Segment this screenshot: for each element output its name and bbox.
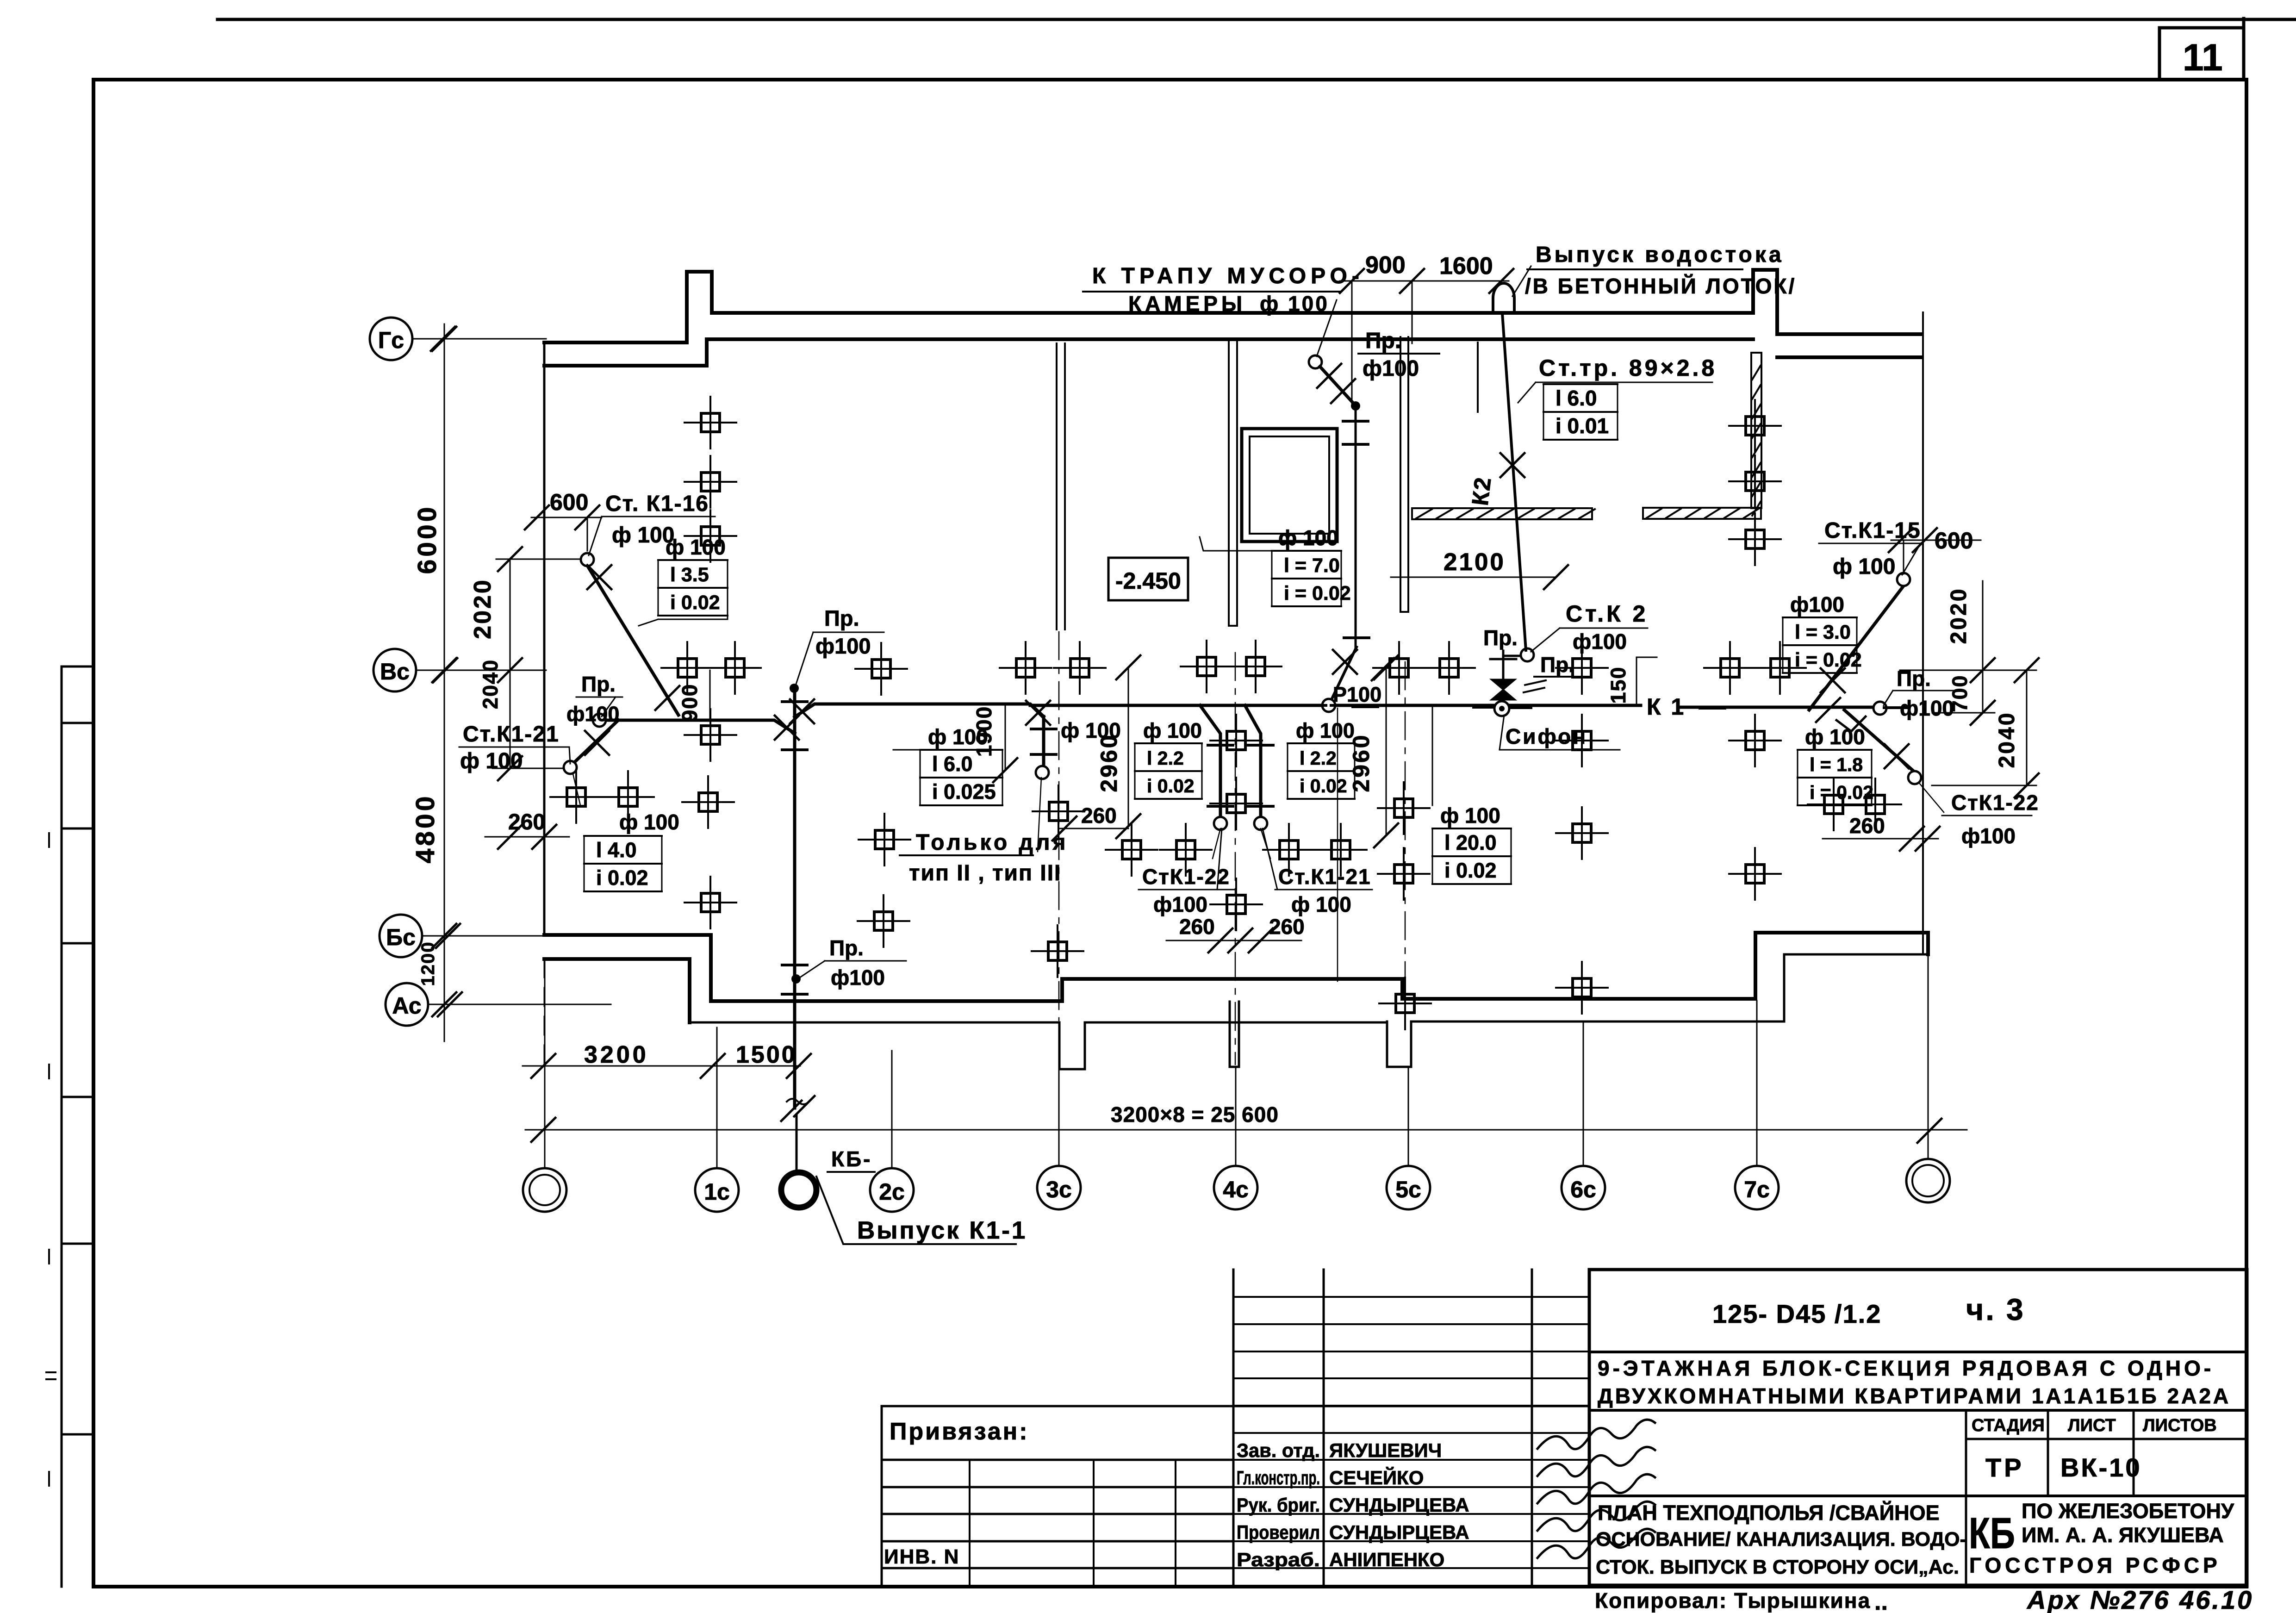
right end double circle bbox=[1906, 1159, 1950, 1202]
pipe to floor drain junction bbox=[1503, 655, 1524, 657]
shaft room double rectangle bbox=[1242, 429, 1337, 542]
axis Ас line bbox=[428, 1004, 611, 1005]
axis circle 2с bbox=[870, 1168, 914, 1212]
leader Выпуск водостока bbox=[1512, 266, 1531, 296]
svg-text:Рук. бриг.: Рук. бриг. bbox=[1237, 1494, 1320, 1516]
svg-text:Пр.: Пр. bbox=[1365, 329, 1401, 353]
svg-text:ЛИСТ: ЛИСТ bbox=[2068, 1416, 2116, 1435]
svg-text:3с: 3с bbox=[1046, 1177, 1072, 1202]
bottom riser continuation and break bbox=[787, 1099, 809, 1104]
axis Гс circle bbox=[370, 318, 412, 360]
pipe K1 left segment bbox=[599, 720, 795, 733]
top wall left segment bbox=[544, 341, 707, 366]
interior wall at axis 3с bbox=[1057, 343, 1065, 629]
svg-text:900: 900 bbox=[1365, 252, 1406, 279]
stack Ст.К 2 pipe bbox=[1502, 313, 1526, 650]
bottom wall outer middle bbox=[711, 933, 1928, 1001]
cleanout at K1 right end bbox=[1873, 702, 1886, 715]
svg-text:150: 150 bbox=[1606, 666, 1630, 704]
svg-text:ИНВ. N: ИНВ. N bbox=[884, 1545, 959, 1568]
pipe diagonal Ст.К1-21 left bbox=[574, 720, 618, 763]
svg-text:СтК1-22: СтК1-22 bbox=[1951, 791, 2039, 815]
svg-text:i = 0.02: i = 0.02 bbox=[1810, 782, 1873, 803]
svg-text:ф 100: ф 100 bbox=[460, 749, 523, 773]
title stamp columns bbox=[1966, 1410, 2247, 1585]
svg-text:2020: 2020 bbox=[469, 578, 496, 639]
leader к трапу bbox=[1317, 300, 1337, 356]
svg-text:К 1: К 1 bbox=[1647, 694, 1686, 720]
pipe K1 middle segment bbox=[1030, 705, 1880, 707]
svg-text:ф 100: ф 100 bbox=[619, 810, 679, 834]
svg-text:Только для: Только для bbox=[916, 830, 1068, 855]
svg-text:600: 600 bbox=[550, 489, 588, 515]
interior wall left of shaft bbox=[1229, 341, 1237, 626]
svg-text:КБ: КБ bbox=[1969, 1509, 2015, 1558]
svg-text:260: 260 bbox=[1849, 814, 1885, 838]
level mark -2.450 bbox=[1108, 558, 1188, 600]
svg-text:ОСНОВАНИЕ/ КАНАЛИЗАЦИЯ. ВОДО-: ОСНОВАНИЕ/ КАНАЛИЗАЦИЯ. ВОДО- bbox=[1596, 1528, 1966, 1551]
svg-text:2960: 2960 bbox=[1348, 733, 1374, 792]
privyazan box bbox=[882, 1406, 1589, 1585]
svg-text:ф100: ф100 bbox=[1961, 824, 2016, 848]
svg-text:4с: 4с bbox=[1223, 1177, 1249, 1202]
svg-text:1200: 1200 bbox=[418, 941, 438, 986]
title block row lines bbox=[1589, 1352, 2247, 1496]
garbage chute drain branch bbox=[1309, 355, 1322, 368]
svg-text:КБ-: КБ- bbox=[831, 1147, 872, 1171]
svg-text:Арх №276 46.10: Арх №276 46.10 bbox=[2026, 1585, 2253, 1613]
sheet top edge line bbox=[218, 18, 2296, 21]
svg-text:l 2.2: l 2.2 bbox=[1147, 747, 1184, 769]
svg-text:Выпуск водостока: Выпуск водостока bbox=[1536, 243, 1784, 267]
svg-text:ВК-10: ВК-10 bbox=[2060, 1453, 2142, 1482]
svg-text:Пр.: Пр. bbox=[1483, 626, 1518, 650]
svg-text:ф 100: ф 100 bbox=[928, 725, 988, 749]
top wall chute bump bbox=[687, 272, 712, 343]
svg-text:Ст.К1-15: Ст.К1-15 bbox=[1824, 518, 1921, 543]
svg-text:i 0.02: i 0.02 bbox=[596, 866, 648, 890]
svg-text:К2: К2 bbox=[1467, 475, 1496, 507]
svg-text:ПО ЖЕЛЕЗОБЕТОНУ: ПО ЖЕЛЕЗОБЕТОНУ bbox=[2022, 1499, 2234, 1523]
svg-text:ф 100: ф 100 bbox=[1296, 719, 1355, 742]
pipe K1 right of riser bbox=[795, 704, 1044, 717]
signatures cursive bbox=[1537, 1420, 1655, 1449]
stack riser Выпуск К1-1 bbox=[793, 688, 796, 1108]
svg-text:ф 100: ф 100 bbox=[1260, 292, 1329, 316]
svg-text:ЯКУШЕВИЧ: ЯКУШЕВИЧ bbox=[1329, 1439, 1442, 1461]
axis Бс circle bbox=[380, 915, 422, 957]
svg-text:i 0.02: i 0.02 bbox=[1300, 775, 1347, 797]
svg-text:l 6.0: l 6.0 bbox=[1556, 386, 1597, 410]
svg-text:Разраб.: Разраб. bbox=[1237, 1549, 1320, 1570]
svg-text:ф 100: ф 100 bbox=[1143, 719, 1202, 742]
axis circle 5с bbox=[1387, 1166, 1430, 1209]
svg-text:i = 0.02: i = 0.02 bbox=[1795, 649, 1862, 671]
svg-text:ф100: ф100 bbox=[1573, 629, 1627, 654]
svg-text:5с: 5с bbox=[1395, 1177, 1421, 1202]
svg-text:260: 260 bbox=[508, 810, 545, 835]
dim 900 left bbox=[709, 670, 711, 720]
dim line 2020 left bbox=[496, 559, 586, 670]
hatched wall strip left bbox=[1412, 508, 1592, 519]
svg-text:l = 7.0: l = 7.0 bbox=[1284, 554, 1340, 577]
bottom sheet line bbox=[93, 1585, 2247, 1588]
pipe diagonal Ст.К1-15 right bbox=[1809, 586, 1904, 710]
table l6.0 i0.01 bbox=[1543, 383, 1618, 385]
svg-text:СТОК. ВЫПУСК В СТОРОНУ ОСИ„Ас.: СТОК. ВЫПУСК В СТОРОНУ ОСИ„Ас. bbox=[1596, 1556, 1959, 1578]
pipe diagonal Ст.К1-22 right bbox=[1844, 710, 1915, 772]
left end double circle bbox=[523, 1168, 566, 1212]
axis circle 3с bbox=[1037, 1166, 1081, 1209]
svg-text:260: 260 bbox=[1081, 803, 1117, 828]
dim 600 left bbox=[531, 517, 602, 551]
svg-text:l 20.0: l 20.0 bbox=[1444, 831, 1497, 854]
axis Бс line bbox=[422, 935, 546, 937]
svg-text:7с: 7с bbox=[1744, 1177, 1770, 1202]
svg-text:ф100: ф100 bbox=[1363, 356, 1419, 381]
dim line 2040 left bbox=[492, 670, 572, 768]
svg-text:1с: 1с bbox=[704, 1179, 730, 1205]
svg-text:9-ЭТАЖНАЯ БЛОК-СЕКЦИЯ РЯД: 9-ЭТАЖНАЯ БЛОК-СЕКЦИЯ РЯДОВАЯ С ОДНО- bbox=[1598, 1356, 2214, 1380]
svg-text:ф100: ф100 bbox=[566, 702, 619, 726]
svg-text:ГОССТРОЯ РСФСР: ГОССТРОЯ РСФСР bbox=[1969, 1553, 2221, 1577]
svg-text:Гс: Гс bbox=[378, 327, 404, 353]
pile symbols (cross-in-square piles) bbox=[550, 397, 1901, 1029]
title block big box bbox=[1589, 1270, 2247, 1585]
svg-text:Ас: Ас bbox=[392, 993, 421, 1019]
page number box bbox=[2159, 19, 2244, 80]
interior wall right of shaft bbox=[1400, 337, 1408, 612]
bottom wall step down bbox=[690, 935, 711, 1022]
bottom wall inner middle bbox=[690, 954, 1928, 1022]
axis Гс line bbox=[412, 338, 546, 340]
stack leaders to labels bbox=[1213, 828, 1270, 859]
svg-text:СУНДЫРЦЕВА: СУНДЫРЦЕВА bbox=[1329, 1494, 1469, 1516]
svg-text:Бс: Бс bbox=[386, 924, 416, 950]
svg-text:-2.450: -2.450 bbox=[1115, 568, 1181, 594]
svg-text:6с: 6с bbox=[1570, 1177, 1596, 1202]
svg-text:ч. 3: ч. 3 bbox=[1966, 1292, 2025, 1327]
svg-text:11: 11 bbox=[2183, 37, 2223, 79]
top wall right bump bbox=[1753, 270, 1777, 334]
svg-text:Ст.К1-21: Ст.К1-21 bbox=[1278, 865, 1371, 889]
svg-text:2040: 2040 bbox=[1995, 711, 2019, 768]
building left wall bbox=[543, 343, 546, 935]
axis Вс line bbox=[416, 670, 546, 671]
siphon assembly bbox=[1494, 701, 1509, 716]
svg-text:СУНДЫРЦЕВА: СУНДЫРЦЕВА bbox=[1329, 1521, 1469, 1543]
hatched wall strip right bbox=[1643, 508, 1761, 519]
hatched wall vertical bbox=[1751, 353, 1761, 508]
signature table bbox=[1233, 1270, 1532, 1585]
svg-text:ф100: ф100 bbox=[1790, 592, 1844, 617]
top wall right segment bbox=[1777, 334, 1922, 357]
svg-text:Ст.К 2: Ст.К 2 bbox=[1566, 601, 1648, 627]
svg-text:ф 100: ф 100 bbox=[1291, 892, 1351, 916]
svg-text:l 6.0: l 6.0 bbox=[932, 752, 973, 776]
svg-text:l = 1.8: l = 1.8 bbox=[1810, 754, 1863, 775]
svg-text:Ст.тр. 89×2.8: Ст.тр. 89×2.8 bbox=[1539, 355, 1717, 381]
axis circle 4с bbox=[1214, 1166, 1257, 1209]
svg-text:ф 100: ф 100 bbox=[1061, 718, 1121, 742]
axis Вс circle bbox=[373, 649, 416, 691]
svg-text:2100: 2100 bbox=[1444, 548, 1506, 576]
axis circle 6с bbox=[1562, 1166, 1605, 1209]
svg-text:ф 100: ф 100 bbox=[1278, 526, 1338, 550]
axis circle 7с bbox=[1735, 1166, 1779, 1209]
svg-text:Ст.К1-21: Ст.К1-21 bbox=[463, 722, 560, 747]
svg-text:ТР: ТР bbox=[1985, 1453, 2024, 1482]
svg-text:/В БЕТОННЫЙ ЛОТОК/: /В БЕТОННЫЙ ЛОТОК/ bbox=[1525, 274, 1796, 298]
svg-text:АНІИПЕНКО: АНІИПЕНКО bbox=[1329, 1549, 1444, 1570]
top wall main segment bbox=[707, 313, 1753, 339]
svg-text:700: 700 bbox=[1948, 674, 1972, 712]
thin drop line below Р100 bbox=[1337, 708, 1338, 981]
svg-text:К ТРАПУ МУСОРО-: К ТРАПУ МУСОРО- bbox=[1092, 264, 1364, 288]
svg-text:ЛИСТОВ: ЛИСТОВ bbox=[2143, 1416, 2217, 1435]
svg-text:тип II , тип III: тип II , тип III bbox=[909, 861, 1061, 885]
axis Ас circle bbox=[386, 983, 428, 1026]
left filing margin table bbox=[62, 666, 93, 1587]
svg-text:ф 100: ф 100 bbox=[1805, 725, 1865, 749]
svg-text:ИМ. А. А. ЯКУШЕВА: ИМ. А. А. ЯКУШЕВА bbox=[2022, 1523, 2224, 1547]
junction V mark bbox=[1836, 716, 1866, 731]
right Вс tie line bbox=[1900, 670, 2036, 671]
stack Ст.К1 branch near 3с bbox=[1042, 716, 1045, 768]
axis 4с dash-dot line bbox=[1235, 653, 1236, 1065]
vertical dashed axis 1с upper bbox=[544, 959, 545, 1066]
svg-text:125- D45 /1.2: 125- D45 /1.2 bbox=[1712, 1299, 1881, 1328]
sewer outlet КБ circle bbox=[781, 1172, 816, 1208]
svg-text:ф100: ф100 bbox=[831, 965, 885, 990]
bottom wall notch B bbox=[1387, 1021, 1411, 1067]
svg-text:ф100: ф100 bbox=[1900, 696, 1954, 720]
svg-text:ф100: ф100 bbox=[1153, 892, 1207, 916]
svg-text:3200: 3200 bbox=[584, 1041, 649, 1068]
axis 4с wall stub bbox=[1230, 1002, 1239, 1067]
svg-text:3200×8 = 25 600: 3200×8 = 25 600 bbox=[1111, 1102, 1279, 1127]
svg-text:4800: 4800 bbox=[411, 794, 440, 864]
svg-text:i 0.01: i 0.01 bbox=[1556, 414, 1609, 438]
svg-text:Проверил: Проверил bbox=[1237, 1521, 1320, 1543]
svg-text:ф 100: ф 100 bbox=[1833, 554, 1895, 579]
svg-text:Пр.: Пр. bbox=[1540, 653, 1574, 677]
twin stack branch A bbox=[1200, 705, 1220, 819]
dim line 25600 bbox=[525, 1129, 1967, 1131]
svg-text:260: 260 bbox=[1269, 915, 1305, 939]
svg-text:Выпуск К1-1: Выпуск К1-1 bbox=[857, 1217, 1027, 1244]
svg-text:i 0.02: i 0.02 bbox=[1147, 775, 1195, 797]
svg-text:l 4.0: l 4.0 bbox=[596, 838, 637, 862]
left vertical dimension line bbox=[444, 324, 445, 1041]
svg-text:Пр.: Пр. bbox=[581, 672, 616, 696]
table ф100 l20.0 i0.02 bbox=[1432, 707, 1433, 805]
svg-text:2020: 2020 bbox=[1947, 587, 1971, 644]
dim 900 1600 top bbox=[1340, 281, 1509, 406]
svg-text:2с: 2с bbox=[879, 1179, 905, 1205]
twin stack branch B bbox=[1245, 705, 1261, 819]
svg-text:l = 3.0: l = 3.0 bbox=[1795, 621, 1851, 643]
axis extension lines bottom bbox=[545, 954, 1928, 1169]
small wall stub bbox=[1477, 343, 1479, 412]
svg-text:КАМЕРЫ: КАМЕРЫ bbox=[1128, 292, 1246, 316]
svg-text:ф 100: ф 100 bbox=[666, 535, 726, 559]
bottom wall notch A bbox=[1059, 1022, 1085, 1069]
bottom wall Бс segment bbox=[544, 935, 711, 959]
svg-text:Ст. К1-16: Ст. К1-16 bbox=[605, 492, 709, 516]
axis circle 1с bbox=[695, 1168, 739, 1212]
svg-text:Пр.: Пр. bbox=[824, 606, 859, 630]
svg-text:ДВУХКОМНАТНЫМИ КВАРТИРАМИ 1: ДВУХКОМНАТНЫМИ КВАРТИРАМИ 1А1А1Б1Б 2А2А bbox=[1598, 1384, 2231, 1408]
svg-text:Сифон: Сифон bbox=[1506, 724, 1587, 748]
svg-text:900: 900 bbox=[678, 684, 702, 722]
svg-text:l 2.2: l 2.2 bbox=[1300, 747, 1337, 769]
svg-text:260: 260 bbox=[1179, 915, 1215, 939]
svg-text:1500: 1500 bbox=[736, 1041, 797, 1068]
svg-text:Копировал: Тырышкина: Копировал: Тырышкина bbox=[1595, 1588, 1871, 1613]
cleanout circle at K1 left end bbox=[593, 714, 606, 727]
dim line 3200 1500 bbox=[523, 1065, 800, 1067]
svg-text:i 0.02: i 0.02 bbox=[670, 592, 720, 614]
svg-text:СЕЧЕЙКО: СЕЧЕЙКО bbox=[1329, 1466, 1424, 1488]
svg-text:1600: 1600 bbox=[1439, 253, 1493, 280]
axis 3с dash-dot line bbox=[1058, 632, 1060, 1021]
svg-text:Пр.: Пр. bbox=[829, 936, 864, 960]
svg-text:i 0.025: i 0.025 bbox=[932, 780, 996, 803]
svg-text:ф100: ф100 bbox=[815, 634, 871, 658]
svg-text:СТАДИЯ: СТАДИЯ bbox=[1972, 1416, 2045, 1435]
svg-text:6000: 6000 bbox=[412, 504, 442, 574]
svg-text:P100: P100 bbox=[1333, 683, 1381, 706]
label Выпуск К1-1 bbox=[816, 1177, 1016, 1244]
svg-text:ПЛАН ТЕХПОДПОЛЬЯ /СВАЙНОЕ: ПЛАН ТЕХПОДПОЛЬЯ /СВАЙНОЕ bbox=[1598, 1501, 1940, 1525]
pipe diagonal Ст.К1-16 bbox=[587, 566, 678, 715]
building right edge line bbox=[1922, 312, 1924, 954]
svg-text:..: .. bbox=[1874, 1588, 1888, 1613]
svg-text:2040: 2040 bbox=[479, 659, 502, 709]
siphon valve bbox=[1491, 679, 1515, 700]
svg-text:Привязан:: Привязан: bbox=[890, 1418, 1029, 1445]
svg-text:i 0.02: i 0.02 bbox=[1444, 859, 1497, 882]
axis 5с dash-dot line bbox=[1405, 662, 1406, 1000]
svg-text:Гл.констр.пр.: Гл.констр.пр. bbox=[1237, 1467, 1320, 1488]
svg-text:Вс: Вс bbox=[380, 659, 410, 685]
svg-text:ф 100: ф 100 bbox=[1440, 803, 1500, 828]
svg-text:l 3.5: l 3.5 bbox=[670, 564, 709, 586]
pipe Р100 branch bbox=[1329, 647, 1356, 705]
svg-text:Зав. отд.: Зав. отд. bbox=[1237, 1439, 1320, 1461]
water outlet arc bbox=[1493, 283, 1514, 313]
